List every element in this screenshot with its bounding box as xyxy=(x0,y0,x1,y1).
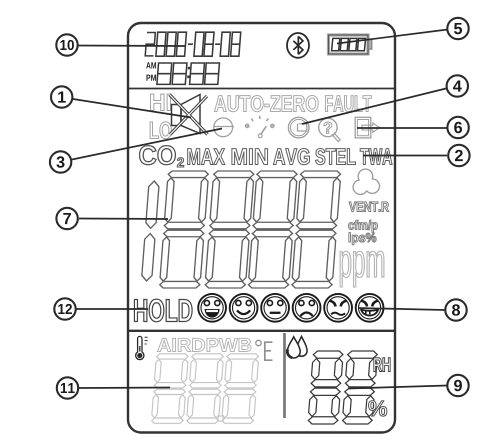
callout circle 7 xyxy=(56,208,77,229)
leader line 7 xyxy=(79,218,168,221)
battery icon xyxy=(329,35,372,54)
temperature decimal point xyxy=(218,416,223,421)
callout circle 2 xyxy=(448,145,469,166)
TWA label xyxy=(360,149,392,165)
humidity droplets icon xyxy=(287,336,307,357)
AIRDPWB label xyxy=(158,338,252,351)
AUTO-ZERO label xyxy=(214,95,318,111)
clock/auto icon xyxy=(288,117,309,138)
leader line 4 xyxy=(302,88,448,124)
emoji neutral xyxy=(261,294,289,322)
percent label xyxy=(369,401,387,416)
PM label xyxy=(146,75,156,81)
leader line 3 xyxy=(72,129,222,160)
exit icon xyxy=(355,117,380,138)
humidity display 88 xyxy=(308,351,378,424)
LO label xyxy=(150,122,171,139)
emoji angry xyxy=(324,294,352,322)
bluetooth icon xyxy=(287,33,309,58)
lps% label xyxy=(349,233,376,245)
callout circle 3 xyxy=(50,151,71,172)
thermometer icon xyxy=(136,336,148,359)
time display 88:88 xyxy=(157,63,220,84)
zero-offset circle icon xyxy=(214,118,234,137)
callout circle 6 xyxy=(447,117,468,138)
callout circle 4 xyxy=(447,75,468,96)
AVG label xyxy=(273,148,309,164)
HOLD label xyxy=(134,299,192,322)
degree F/C symbol xyxy=(256,340,273,360)
VENT.R label xyxy=(349,202,389,212)
leader line 1 xyxy=(73,99,191,118)
callout circle 1 xyxy=(51,86,72,107)
CO2 label xyxy=(140,146,176,165)
vertical divider temp/humidity xyxy=(283,333,286,418)
divider under clock row xyxy=(128,88,395,90)
emoji sad xyxy=(293,294,321,322)
HI label xyxy=(151,94,171,111)
MIN label xyxy=(232,149,268,165)
divider above bottom row xyxy=(128,330,395,332)
RH label xyxy=(374,358,390,372)
AM label xyxy=(146,62,156,68)
date display 2000-08-08 xyxy=(145,32,241,56)
leader line 9 xyxy=(348,386,447,389)
emoji furious (grimace) xyxy=(356,294,384,322)
emoji happy (big grin) xyxy=(198,294,226,322)
CO2 subscript 2 xyxy=(177,158,184,167)
LCD panel border xyxy=(128,23,395,433)
fan icon xyxy=(353,169,380,194)
main display leading 1 xyxy=(141,181,159,281)
leader line 8 xyxy=(358,308,445,310)
speaker mute icon (buzzer off) xyxy=(170,95,208,135)
time colon xyxy=(187,67,190,78)
leader line 11 xyxy=(79,387,170,390)
leader line 6 xyxy=(357,127,447,129)
leader line 5 xyxy=(337,30,448,44)
main display 8888 xyxy=(159,171,341,288)
MAX label xyxy=(188,149,225,165)
temperature display 888 xyxy=(151,354,259,424)
ppm label xyxy=(340,251,384,287)
callout circle 9 xyxy=(447,375,468,396)
leader line 12 xyxy=(76,308,148,310)
callout circle 8 xyxy=(445,299,466,320)
leader line 10 xyxy=(76,45,185,48)
cfm/p label xyxy=(348,220,377,232)
leader line 2 xyxy=(363,155,447,157)
callout circle 11 xyxy=(57,377,78,398)
question-mark magnifier icon xyxy=(319,118,341,141)
gauge icon xyxy=(245,116,274,138)
callout circle 12 xyxy=(54,298,75,319)
FAULT label xyxy=(325,96,371,112)
emoji smile xyxy=(230,294,258,322)
callout circle 10 xyxy=(56,34,77,55)
STEL label xyxy=(315,148,355,164)
callout circle 5 xyxy=(447,18,468,39)
